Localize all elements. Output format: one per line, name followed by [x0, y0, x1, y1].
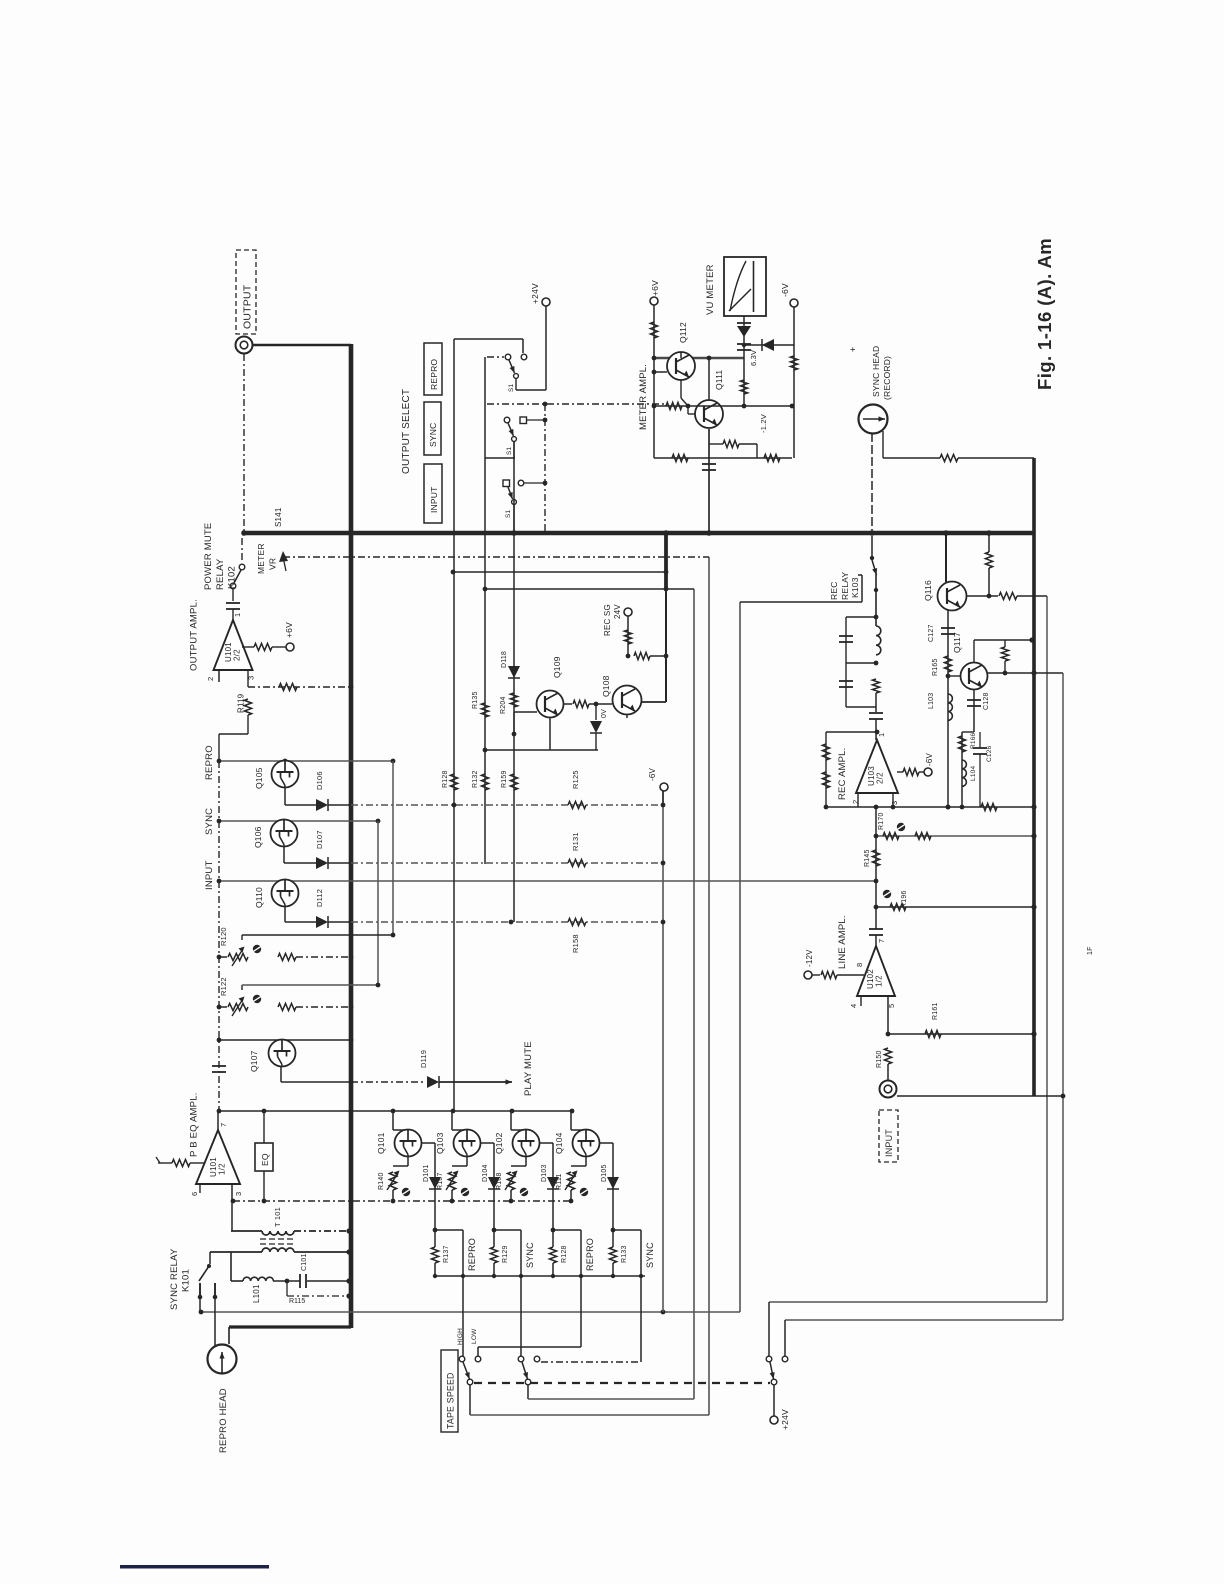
svg-text:D105: D105: [601, 1164, 608, 1182]
switch S1b: [504, 417, 510, 423]
wire route x663 (-6V rail): [662, 791, 664, 1312]
resistor R204: [510, 693, 517, 707]
wire col x485: [484, 357, 486, 864]
svg-text:Q107: Q107: [249, 1050, 259, 1072]
wire y750: [485, 749, 598, 751]
R196 row: [883, 890, 891, 898]
svg-text:POWER MUTE: POWER MUTE: [203, 523, 214, 590]
svg-text:SYNC: SYNC: [428, 423, 438, 447]
svg-text:S1: S1: [505, 509, 512, 518]
svg-text:-1.2V: -1.2V: [759, 414, 768, 433]
terminal +6V: [650, 297, 658, 305]
svg-text:S1: S1: [508, 383, 515, 392]
svg-text:Q111: Q111: [714, 370, 724, 390]
svg-text:D119: D119: [419, 1050, 428, 1068]
op-amp U101 1/2: [217, 1111, 219, 1130]
op-amp U103 2/2 REC AMPL: [856, 740, 898, 793]
svg-text:SYNC: SYNC: [645, 1242, 655, 1268]
svg-text:METER: METER: [256, 543, 266, 574]
svg-text:Fig. 1-16 (A). Am: Fig. 1-16 (A). Am: [1034, 238, 1055, 390]
switch S2a tape speed: [459, 1356, 465, 1362]
Q116 base row: [966, 595, 998, 597]
diode under meter: [743, 316, 745, 406]
svg-text:Q110: Q110: [254, 887, 264, 908]
connector J: OUTPUT jack: [236, 337, 253, 354]
switch S2b: [518, 1356, 524, 1362]
svg-text:8: 8: [855, 963, 864, 967]
wire rail y572: [453, 571, 666, 573]
label box TAPE SPEED: [441, 1350, 458, 1432]
trimmer R140: [389, 1172, 396, 1190]
input resistor pin6: [158, 1162, 172, 1164]
svg-text:L101: L101: [252, 1284, 261, 1303]
svg-text:REPRO HEAD: REPRO HEAD: [218, 1388, 229, 1453]
svg-text:(RECORD): (RECORD): [882, 356, 892, 400]
box EQ: [255, 1143, 273, 1171]
feedback left: [826, 731, 877, 733]
pin3 stub: [892, 793, 894, 807]
wire sw2 down rail: [527, 1385, 529, 1399]
svg-text:REPRO: REPRO: [467, 1238, 477, 1271]
wire thick right bus: [1032, 458, 1036, 1096]
svg-text:L104: L104: [970, 766, 977, 781]
svg-text:4: 4: [849, 1004, 858, 1008]
svg-text:R204: R204: [500, 696, 507, 714]
transistor Q110: [272, 880, 299, 907]
svg-text:Q117: Q117: [952, 632, 962, 653]
page artifact bar: [120, 1565, 269, 1569]
wire route x709: [708, 557, 710, 1415]
svg-text:SYNC HEAD: SYNC HEAD: [871, 346, 881, 397]
svg-text:2: 2: [206, 677, 215, 681]
wire: dashed drop from output jack: [243, 354, 245, 533]
svg-text:-12V: -12V: [805, 949, 814, 967]
terminal +24V bottom: [773, 1385, 775, 1416]
resistor R137: [431, 1247, 438, 1263]
resistor R128: [549, 1247, 556, 1263]
wire bottom rail to tape speed: [201, 1311, 740, 1313]
svg-text:R125: R125: [571, 770, 580, 789]
wire pin3 to bus: [247, 670, 249, 687]
svg-text:D112: D112: [315, 889, 324, 907]
transistor Q104: [570, 1111, 572, 1130]
label box INPUT: [879, 1110, 898, 1162]
svg-text:D106: D106: [315, 771, 324, 790]
label box INPUT: [424, 464, 442, 523]
svg-text:R128: R128: [561, 1245, 568, 1263]
diode D106: [285, 804, 316, 806]
wire y406 row: [654, 405, 792, 407]
svg-text:K102: K102: [227, 566, 238, 589]
Q117 emitter chain: [973, 690, 975, 732]
svg-text:T 101: T 101: [273, 1207, 282, 1227]
wire: main horizontal bus: [242, 531, 1035, 536]
wire bank bottom rail: [435, 1275, 645, 1277]
svg-text:REC SG: REC SG: [603, 604, 612, 636]
VU METER box: [724, 257, 766, 316]
svg-text:2/2: 2/2: [876, 772, 885, 784]
terminal +24V top: [542, 298, 550, 306]
svg-text:1F: 1F: [1087, 946, 1094, 955]
terminal -12V: [804, 971, 812, 979]
svg-text:REC AMPL.: REC AMPL.: [837, 748, 848, 800]
connector INPUT jack: [880, 1081, 897, 1098]
wire channel box: [613, 1229, 641, 1231]
wire sw1 down rail: [469, 1385, 471, 1415]
transistor Q112: [667, 352, 695, 380]
svg-text:+6V: +6V: [650, 280, 660, 296]
resistor to node: [626, 654, 631, 659]
wire y458 row: [654, 457, 792, 459]
svg-text:C127: C127: [928, 624, 935, 642]
trimmer R107: [448, 1172, 455, 1190]
resistor R122 (variable): [219, 1006, 227, 1008]
svg-text:3: 3: [890, 801, 899, 805]
svg-text:R119: R119: [237, 693, 246, 713]
wire rail y863 + resistor R131: [351, 862, 663, 864]
svg-text:R111: R111: [556, 1174, 563, 1191]
Q109 base: [514, 711, 537, 713]
relay K101 contacts: [209, 1252, 211, 1264]
capacitor on left column: [212, 1065, 226, 1067]
trimmer R108: [507, 1172, 514, 1190]
svg-text:R115: R115: [289, 1298, 305, 1305]
svg-text:R137: R137: [443, 1245, 450, 1263]
switch S1a: [454, 338, 523, 340]
svg-text:Q101: Q101: [376, 1132, 386, 1154]
svg-text:SYNC: SYNC: [525, 1242, 535, 1268]
wire output top: [252, 344, 351, 347]
svg-text:REPRO: REPRO: [204, 745, 215, 780]
diode D119: [427, 1076, 439, 1088]
svg-text:Q116: Q116: [923, 580, 933, 601]
wire sub 1296: [286, 1281, 288, 1296]
wire METER VR line: [283, 556, 709, 558]
svg-text:REPRO: REPRO: [585, 1238, 595, 1271]
svg-text:+24V: +24V: [780, 1409, 790, 1430]
wire EQ top rail: [219, 1110, 574, 1112]
svg-text:R131: R131: [571, 832, 580, 851]
svg-text:+24V: +24V: [530, 283, 540, 304]
wire col x514: [513, 442, 515, 922]
wire: main vertical bus: [349, 344, 354, 1328]
pin4 to -6V: [897, 771, 903, 773]
resistor base Q108: [563, 703, 572, 705]
svg-text:TAPE SPEED: TAPE SPEED: [446, 1372, 456, 1429]
svg-text:METER AMPL.: METER AMPL.: [638, 364, 649, 430]
transistor Q108: [613, 686, 642, 715]
svg-text:R145: R145: [864, 849, 871, 867]
svg-text:OUTPUT: OUTPUT: [242, 284, 254, 329]
resistor R135: [481, 703, 488, 717]
svg-text:-6V: -6V: [925, 752, 934, 766]
svg-text:0V: 0V: [601, 709, 608, 718]
svg-text:Q104: Q104: [554, 1132, 564, 1154]
wires bank to switches: [462, 1230, 464, 1356]
transistor Q102: [510, 1111, 512, 1130]
svg-text:EQ: EQ: [260, 1153, 270, 1166]
switch S1c: [503, 480, 510, 487]
wire route x1047: [1046, 596, 1048, 1302]
wire long dashed gang line: [474, 1382, 770, 1384]
Q111 emitter column: [708, 428, 710, 533]
resistors R128 R132 R159: [450, 774, 457, 790]
transistor Q106: [271, 820, 298, 847]
svg-text:D107: D107: [315, 830, 324, 849]
resistor R150: [884, 1048, 891, 1064]
svg-text:R108: R108: [496, 1172, 503, 1190]
svg-text:D103: D103: [541, 1164, 548, 1182]
svg-text:R135: R135: [472, 691, 479, 709]
svg-text:+: +: [848, 347, 858, 352]
wire collector rail: [654, 357, 744, 359]
head: SYNC HEAD (RECORD): [859, 405, 888, 434]
wire R122 wiper: [241, 985, 243, 990]
svg-text:2/2: 2/2: [233, 649, 242, 661]
transformer T101: [231, 1184, 233, 1231]
svg-text:VR: VR: [268, 558, 278, 570]
diode D103: [547, 1177, 559, 1189]
svg-text:24V: 24V: [613, 604, 622, 619]
svg-text:R132: R132: [472, 770, 479, 788]
svg-text:K101: K101: [181, 1269, 192, 1292]
transistor Q107: [269, 1040, 296, 1067]
wire rail y589: [485, 588, 694, 590]
svg-text:OUTPUT AMPL.: OUTPUT AMPL.: [189, 599, 200, 671]
svg-text:1: 1: [233, 613, 242, 617]
diode D118: [508, 666, 520, 678]
wire rail y807: [826, 806, 1034, 808]
wire Q112 emitter: [680, 380, 682, 398]
node SYNC rail: [219, 820, 378, 822]
svg-text:Q103: Q103: [435, 1132, 445, 1154]
wire head to R to bus corner: [882, 431, 884, 458]
svg-text:C128: C128: [983, 692, 990, 710]
terminal -6V: [660, 783, 668, 791]
svg-text:OUTPUT SELECT: OUTPUT SELECT: [401, 389, 412, 474]
svg-text:LOW: LOW: [471, 1328, 478, 1344]
svg-text:INPUT: INPUT: [429, 487, 439, 514]
svg-text:Q109: Q109: [552, 656, 562, 678]
head: REPRO HEAD: [208, 1345, 237, 1374]
svg-text:R120: R120: [219, 927, 228, 946]
resistor from bus: [988, 533, 990, 552]
svg-text:R159: R159: [501, 770, 508, 788]
resistor R120 (variable): [219, 956, 227, 958]
transistor Q101: [392, 1111, 394, 1130]
svg-text:6: 6: [190, 1192, 199, 1196]
svg-text:LINE AMPL.: LINE AMPL.: [837, 915, 848, 969]
svg-text:R170: R170: [878, 812, 885, 830]
svg-text:3: 3: [234, 1192, 243, 1196]
label box REPRO: [424, 343, 442, 395]
wire route x694: [693, 589, 695, 1399]
wire play mute line: [281, 1081, 351, 1083]
relay K102 contact: [241, 538, 243, 563]
svg-text:R150: R150: [876, 1050, 883, 1068]
svg-text:-6V: -6V: [780, 283, 790, 297]
wire rail y805 + resistor R125: [351, 804, 663, 806]
wire corner 1063/1320: [785, 1319, 1063, 1321]
resistor R129: [490, 1247, 497, 1263]
R170 row: [897, 823, 905, 831]
terminal -6V meter: [790, 299, 798, 307]
Q116 emitter chain: [947, 610, 949, 807]
transistor Q116: [938, 582, 967, 611]
resistor R119: [244, 699, 251, 715]
svg-text:R129: R129: [502, 1245, 509, 1263]
wire channel box: [435, 1229, 463, 1231]
svg-text:-6V: -6V: [648, 767, 657, 781]
svg-text:VU METER: VU METER: [705, 264, 716, 315]
svg-text:INPUT: INPUT: [884, 1129, 894, 1157]
wire thick branch x666: [664, 533, 668, 590]
svg-text:P B EQ AMPL.: P B EQ AMPL.: [189, 1092, 200, 1157]
op-amp U102 1/2 LINE AMPL: [869, 928, 883, 930]
relay LC chain: [875, 574, 877, 626]
svg-text:R161: R161: [932, 1002, 939, 1020]
svg-text:SYNC RELAY: SYNC RELAY: [169, 1248, 180, 1310]
svg-text:SYNC: SYNC: [204, 808, 215, 835]
Q117 collector loop: [973, 640, 975, 662]
wire bus bottom corner: [229, 1325, 351, 1328]
svg-text:C126: C126: [986, 745, 993, 762]
wire dash y404: [487, 403, 666, 405]
svg-text:S141: S141: [274, 507, 283, 527]
branch C126: [979, 732, 981, 748]
wire corner 1047/1302: [769, 1301, 1047, 1303]
label box SYNC: [424, 402, 441, 455]
svg-text:+6V: +6V: [284, 622, 294, 638]
resistor feedback: [709, 443, 723, 445]
svg-text:1/2: 1/2: [218, 1163, 227, 1175]
wire left dashed column: [218, 761, 220, 1111]
svg-text:6.3V: 6.3V: [749, 350, 758, 366]
label box OUTPUT: [236, 250, 256, 334]
svg-text:INPUT: INPUT: [204, 861, 215, 891]
svg-text:D118: D118: [501, 651, 508, 668]
svg-text:HIGH: HIGH: [457, 1328, 464, 1345]
wire route x740: [739, 602, 741, 1312]
transistor Q109: [537, 691, 564, 718]
svg-text:RELAY: RELAY: [215, 558, 226, 590]
svg-text:R133: R133: [621, 1245, 628, 1263]
transistor Q105: [272, 761, 299, 788]
wire switch col x454: [453, 339, 455, 1111]
wire diode row y345: [744, 344, 794, 346]
resistor R133: [609, 1247, 616, 1263]
svg-text:1/2: 1/2: [875, 975, 884, 987]
output + R161 row: [887, 996, 889, 1034]
transistor Q117: [961, 663, 988, 690]
svg-text:R166: R166: [970, 732, 977, 749]
diode D101: [429, 1177, 441, 1189]
svg-text:Q112: Q112: [678, 322, 688, 343]
svg-text:R107: R107: [437, 1172, 444, 1190]
wire Q107 top rail: [219, 1039, 351, 1041]
wire lower rail y1200: [233, 1200, 572, 1202]
trimmer R111: [567, 1172, 574, 1190]
svg-text:R158: R158: [571, 934, 580, 953]
wire R120 wiper: [241, 935, 243, 940]
svg-text:K103: K103: [850, 577, 860, 598]
node REPRO rail: [219, 760, 393, 762]
diode 0V: [595, 704, 597, 720]
wire rail y922 + resistor R158: [351, 921, 663, 923]
diode D105: [607, 1177, 619, 1189]
svg-text:R122: R122: [219, 977, 228, 996]
svg-text:D104: D104: [482, 1164, 489, 1182]
svg-text:R165: R165: [932, 658, 939, 676]
svg-text:Q105: Q105: [254, 767, 264, 789]
svg-text:7: 7: [877, 939, 886, 943]
diode D104: [488, 1177, 500, 1189]
svg-text:RELAY: RELAY: [840, 572, 850, 600]
svg-text:C101: C101: [301, 1253, 308, 1271]
diode D107: [284, 862, 316, 864]
svg-text:7: 7: [219, 1123, 228, 1127]
svg-text:REC: REC: [829, 581, 839, 600]
svg-text:L103: L103: [928, 693, 935, 709]
capacitor C101: [299, 1274, 301, 1288]
svg-text:D101: D101: [423, 1164, 430, 1182]
transistor Q103: [451, 1111, 453, 1130]
resistor R145: [875, 807, 877, 881]
inductor L101: [230, 1252, 232, 1281]
svg-text:Q102: Q102: [494, 1132, 504, 1154]
svg-text:REPRO: REPRO: [429, 359, 439, 390]
diode D112: [285, 921, 316, 923]
node INPUT rail: [219, 880, 876, 882]
svg-text:R140: R140: [378, 1172, 385, 1190]
svg-text:R128: R128: [442, 770, 449, 788]
svg-text:PLAY MUTE: PLAY MUTE: [523, 1041, 534, 1096]
op-amp U101 2/2 output ampl: [214, 620, 253, 670]
svg-text:S1: S1: [506, 446, 513, 455]
wire channel box: [553, 1229, 581, 1231]
switch S2c: [766, 1356, 772, 1362]
wire route x1063: [1062, 673, 1064, 1320]
svg-text:Q108: Q108: [601, 675, 611, 697]
resistor to +6V term: [242, 646, 254, 648]
transistor Q111: [695, 400, 723, 428]
svg-text:Q106: Q106: [253, 826, 263, 848]
wire channel box: [494, 1229, 521, 1231]
